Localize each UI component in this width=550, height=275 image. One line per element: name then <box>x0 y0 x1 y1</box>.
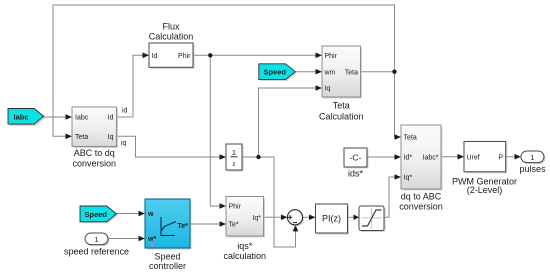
svg-text:Teta: Teta <box>75 134 88 141</box>
wire Te* (Speed controller to iqs* calculation) <box>190 223 220 225</box>
svg-text:Phir: Phir <box>325 53 338 60</box>
svg-text:conversion: conversion <box>72 158 116 168</box>
block PI(z) <box>316 204 350 235</box>
svg-text:Phir: Phir <box>178 53 191 60</box>
svg-text:Iq*: Iq* <box>404 175 413 182</box>
svg-text:Iabc*: Iabc* <box>423 155 439 162</box>
wire iq (Iq output to unit delay) <box>117 136 221 157</box>
svg-text:id: id <box>122 108 128 115</box>
svg-text:Teta: Teta <box>345 69 358 76</box>
block Teta Calculation <box>322 46 362 99</box>
block PWM Generator (2-Level) <box>464 142 507 174</box>
tag Iabc (From tag) <box>8 109 45 127</box>
svg-text:-C-: -C- <box>350 153 362 163</box>
svg-text:Te*: Te* <box>178 223 189 230</box>
svg-text:ids*: ids* <box>348 169 364 179</box>
svg-text:1: 1 <box>94 235 98 244</box>
block Flux Calculation <box>149 43 195 69</box>
junction dot at Teta output <box>392 70 396 74</box>
svg-text:1: 1 <box>232 148 236 157</box>
svg-text:1: 1 <box>530 153 534 162</box>
wire -C- constant to dq-to-ABC Id* port <box>367 156 395 158</box>
svg-text:Speed: Speed <box>154 252 180 262</box>
svg-text:PI(z): PI(z) <box>322 214 341 224</box>
svg-text:controller: controller <box>149 261 186 271</box>
svg-text:Id*: Id* <box>404 155 413 162</box>
svg-text:conversion: conversion <box>399 202 443 212</box>
svg-text:speed reference: speed reference <box>64 247 129 257</box>
svg-text:Flux: Flux <box>162 21 180 31</box>
junction dot at unit delay output <box>256 155 260 159</box>
wire Iq* (iqs* calculation to sum) <box>264 216 283 218</box>
wire saturation output to dq-to-ABC Iq* port <box>384 177 395 217</box>
svg-text:(2-Level): (2-Level) <box>467 185 503 195</box>
badge library link arrow <box>149 241 156 248</box>
wire speed reference to Speed controller w* port <box>108 238 139 240</box>
svg-text:Iabc: Iabc <box>14 112 29 121</box>
constant -C- <box>344 148 369 169</box>
block saturation <box>359 206 386 232</box>
tag Speed (to Speed controller) <box>80 206 118 223</box>
wire sum output to PI(z) <box>303 216 310 218</box>
svg-text:Iabc: Iabc <box>75 115 89 122</box>
wire Iabc* (dq-to-ABC to PWM Generator) <box>441 156 458 158</box>
svg-text:w: w <box>147 211 154 218</box>
block dq to ABC conversion <box>401 125 443 191</box>
svg-text:pulses: pulses <box>519 164 546 174</box>
wire Speed tag to Speed controller w port <box>116 213 139 215</box>
svg-text:Te*: Te* <box>229 222 239 229</box>
svg-text:Id: Id <box>108 115 114 122</box>
junction dot at Phir output <box>208 53 212 57</box>
tag Speed (to Teta Calculation) <box>259 64 297 81</box>
arrowhead into dq-to-ABC Teta port <box>395 134 402 140</box>
svg-text:iqs*: iqs* <box>237 241 253 251</box>
svg-text:Iq: Iq <box>108 134 114 141</box>
wire Teta feedback loop (Teta Calculation output to both conversion blocks) <box>53 5 396 137</box>
svg-text:Teta: Teta <box>333 101 350 111</box>
svg-text:Teta: Teta <box>404 135 417 142</box>
svg-text:wm: wm <box>324 69 336 76</box>
wire id (Id output to Flux Calculation) <box>117 55 144 117</box>
svg-text:dq to ABC: dq to ABC <box>401 192 442 202</box>
svg-text:Iq*: Iq* <box>252 215 261 222</box>
svg-text:z: z <box>232 159 236 168</box>
icon speed controller plot <box>161 217 175 236</box>
outport pulses <box>521 151 546 164</box>
wire Iabc tag to ABC-to-dq Iabc port <box>44 116 66 118</box>
block Speed controller <box>145 199 192 250</box>
block ABC to dq conversion <box>72 107 118 148</box>
svg-text:iq: iq <box>121 140 127 147</box>
block unit delay 1/z <box>226 144 244 172</box>
svg-text:Id: Id <box>152 53 158 60</box>
svg-text:ABC to dq: ABC to dq <box>74 148 115 158</box>
svg-text:Calculation: Calculation <box>149 32 194 42</box>
svg-text:Speed: Speed <box>85 210 108 219</box>
sum block <box>287 210 304 227</box>
wire Phir (Flux Calculation output to Teta Calculation and iqs* calculation) <box>193 54 316 56</box>
wire Speed tag to Teta Calculation wm port <box>295 71 316 73</box>
wire PI(z) output to saturation <box>348 216 355 218</box>
wire PWM Generator P output to pulses outport <box>506 156 516 158</box>
svg-text:P: P <box>498 154 503 161</box>
svg-text:Uref: Uref <box>467 154 480 161</box>
svg-text:Calculation: Calculation <box>319 112 364 122</box>
inport speed reference <box>85 233 110 246</box>
svg-text:Iq: Iq <box>325 86 331 93</box>
block iqs* calculation <box>226 197 265 238</box>
wire unit delay output to Teta Calculation Iq port and sum minus input <box>242 88 316 157</box>
svg-text:calculation: calculation <box>223 251 266 261</box>
svg-text:Speed: Speed <box>264 68 287 77</box>
svg-text:Phir: Phir <box>229 204 242 211</box>
arrowhead into ABC-to-dq Teta port <box>66 134 73 140</box>
